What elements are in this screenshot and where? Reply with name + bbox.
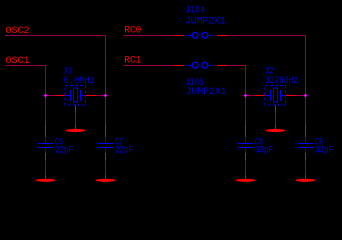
svg-text:33pF: 33pF xyxy=(315,146,333,157)
svg-text:RC1: RC1 xyxy=(124,55,141,67)
svg-text:JUMP2X1: JUMP2X1 xyxy=(185,16,226,27)
svg-text:RC0: RC0 xyxy=(124,25,141,37)
svg-text:OSC2: OSC2 xyxy=(6,25,30,37)
svg-text:6.0MHz: 6.0MHz xyxy=(64,76,96,87)
svg-text:22pF: 22pF xyxy=(55,146,73,157)
svg-text:22pF: 22pF xyxy=(115,146,133,157)
svg-text:33pF: 33pF xyxy=(255,146,273,157)
svg-text:J104: J104 xyxy=(185,6,205,17)
svg-text:JUMP2X1: JUMP2X1 xyxy=(186,87,227,98)
svg-text:32768Hz: 32768Hz xyxy=(265,76,298,87)
svg-text:OSC1: OSC1 xyxy=(6,55,30,67)
